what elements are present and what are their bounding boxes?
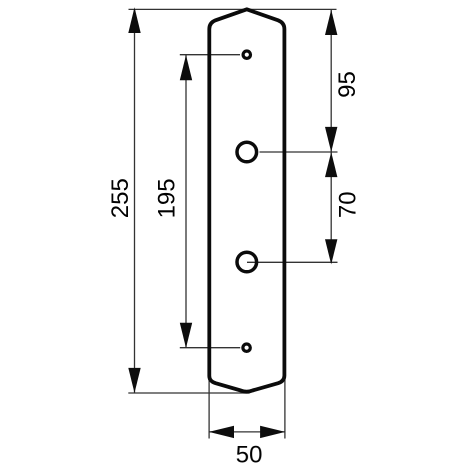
svg-text:255: 255 [107, 178, 134, 218]
svg-text:195: 195 [154, 178, 181, 218]
svg-text:50: 50 [236, 441, 263, 468]
svg-text:95: 95 [334, 71, 361, 98]
svg-text:70: 70 [335, 191, 362, 218]
